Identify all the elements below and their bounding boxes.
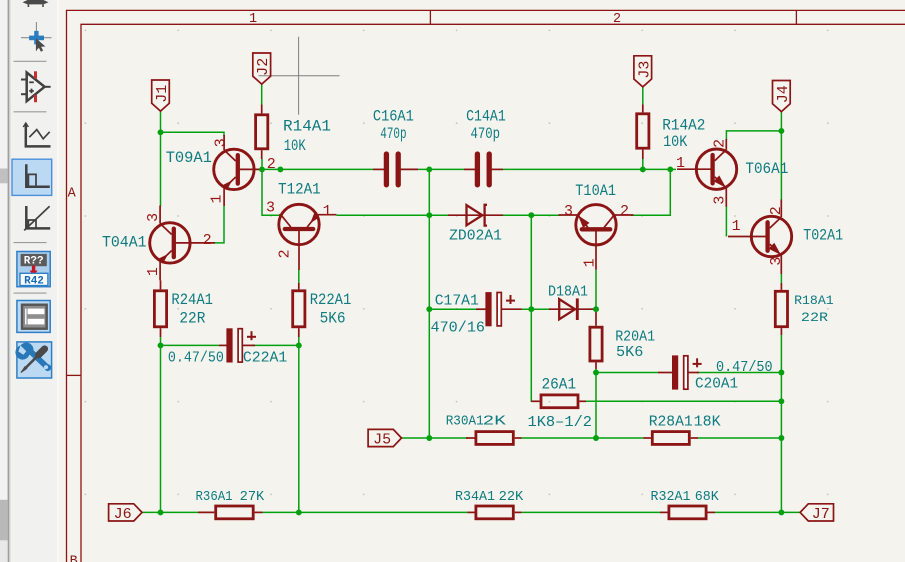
wire R24A1 junction to C22A1 xyxy=(161,344,220,346)
toolbar icon: sim settings (wrench and screwdriver) xyxy=(15,342,51,378)
wire D18A1 to node E xyxy=(587,308,596,310)
svg-text:T10A1: T10A1 xyxy=(575,182,616,200)
wire R14A2 to rail xyxy=(642,159,644,169)
svg-text:3: 3 xyxy=(712,196,729,205)
svg-text:T04A1: T04A1 xyxy=(102,234,147,252)
svg-text:1: 1 xyxy=(676,155,685,172)
svg-text:R20A1: R20A1 xyxy=(615,329,655,346)
toolbar icon: netlist/library xyxy=(17,301,50,333)
svg-text:3: 3 xyxy=(564,203,573,220)
wire T06A1 collector to J4 bus xyxy=(726,131,781,140)
svg-text:10K: 10K xyxy=(284,137,306,155)
svg-text:R36A1: R36A1 xyxy=(196,489,233,505)
junction (160.5,132.3) xyxy=(158,129,164,135)
junction (642.8,169.4) xyxy=(640,166,646,172)
svg-text:C22A1: C22A1 xyxy=(243,349,287,366)
svg-text:26A1: 26A1 xyxy=(542,376,577,394)
resistor R22A1 xyxy=(293,283,305,337)
wire rail: C16A1 to C14A1 xyxy=(418,168,464,170)
svg-text:2K: 2K xyxy=(483,413,507,429)
svg-text:J7: J7 xyxy=(812,506,830,523)
toolbar icon: partial icon at top (cut off) xyxy=(23,0,49,7)
svg-text:2: 2 xyxy=(768,206,785,215)
resistor R18A1 xyxy=(775,283,787,335)
connector J1 xyxy=(152,80,170,111)
resistor R14A1 xyxy=(256,105,268,160)
toolbar icon: annotate R??/R42 xyxy=(17,252,50,288)
svg-text:470p: 470p xyxy=(380,125,406,143)
wire vertical x=298.8 R22A1 to J6 rail xyxy=(298,337,300,512)
left strip scroll block upper xyxy=(0,169,8,184)
wire rail: T09A1 base to C16A1 xyxy=(262,168,373,170)
svg-text:0.47/50: 0.47/50 xyxy=(168,349,224,366)
junction (262,169.4) xyxy=(259,166,265,172)
capacitor C14A1 xyxy=(464,154,503,185)
svg-text:10K: 10K xyxy=(663,133,688,151)
svg-text:T09A1: T09A1 xyxy=(166,149,212,167)
svg-text:J5: J5 xyxy=(373,432,391,449)
toolbar icon: transient plot xyxy=(23,123,50,146)
junction (781.4,512.4) xyxy=(778,509,784,515)
wire T02A1 emitter to R18A1 xyxy=(780,274,782,283)
diode ZD02A1 xyxy=(448,205,503,226)
wire R14A1 to rail xyxy=(261,159,263,169)
svg-text:1: 1 xyxy=(249,12,257,27)
svg-text:C14A1: C14A1 xyxy=(466,108,506,126)
connector J3 xyxy=(634,56,652,87)
svg-text:22R: 22R xyxy=(179,310,205,328)
toolbar separator xyxy=(14,111,47,113)
resistor R28A1 xyxy=(644,432,699,445)
svg-text:J6: J6 xyxy=(114,506,132,523)
junction (781.4,372.5) xyxy=(778,370,784,376)
left strip scroll block lower xyxy=(0,500,8,541)
svg-text:R34A1: R34A1 xyxy=(455,489,495,505)
svg-text:22K: 22K xyxy=(499,489,524,505)
wire C17A1 to D18A1 xyxy=(509,308,550,310)
svg-text:2: 2 xyxy=(712,139,729,148)
wire C20A1 to right bus xyxy=(697,372,781,374)
connector J4 xyxy=(773,81,791,112)
svg-text:68K: 68K xyxy=(695,489,720,505)
diode D18A1 xyxy=(549,298,594,320)
cursor crosshair xyxy=(259,37,340,115)
svg-text:1: 1 xyxy=(145,267,162,276)
svg-text:2: 2 xyxy=(277,249,294,258)
wire junction down to T04A1 collector xyxy=(160,132,162,206)
svg-text:J3: J3 xyxy=(636,61,653,79)
resistor R32A1 xyxy=(660,506,715,519)
svg-text:2: 2 xyxy=(613,12,621,27)
svg-text:B: B xyxy=(70,555,78,562)
resistor R20A1 xyxy=(590,312,602,369)
toolbar separator xyxy=(14,242,47,244)
resistor R24A1 xyxy=(154,280,166,337)
toolbar separator xyxy=(14,292,47,294)
wire J5 to R30A1 xyxy=(402,437,469,439)
toolbar icon: cursor/probe xyxy=(21,22,52,52)
junction (280.4,169.4) xyxy=(277,166,283,172)
wire R18A1 down right bus to J6 rail xyxy=(780,335,782,512)
capacitor C16A1 xyxy=(373,154,418,185)
svg-text:1: 1 xyxy=(323,203,332,220)
svg-text:2: 2 xyxy=(203,232,212,249)
svg-text:2: 2 xyxy=(620,203,629,220)
wire T12A1 base to R22A1 xyxy=(298,269,300,284)
wire junction to T09A1 collector xyxy=(161,132,225,136)
wire node x=429 to C17A1 xyxy=(429,308,476,310)
junction (596,309.2) xyxy=(593,306,599,312)
wrench xyxy=(15,343,51,372)
svg-text:R14A2: R14A2 xyxy=(662,116,705,134)
transistor T04A1 xyxy=(150,206,215,281)
wire T10A1 base down to node E xyxy=(595,270,597,309)
svg-text:R18A1: R18A1 xyxy=(794,293,834,308)
svg-text:J1: J1 xyxy=(154,85,171,103)
connector J2 xyxy=(253,53,271,84)
resistor R34A1 xyxy=(468,506,522,519)
svg-text:2: 2 xyxy=(267,156,276,173)
svg-text:3: 3 xyxy=(266,200,275,217)
svg-text:R28A1: R28A1 xyxy=(649,414,693,431)
junction (429.3,169.4) xyxy=(426,166,432,172)
svg-text:22R: 22R xyxy=(801,310,828,325)
junction (596,372.5) xyxy=(593,370,599,376)
svg-text:C17A1: C17A1 xyxy=(435,292,479,309)
wire 26A1 to right bus xyxy=(586,400,781,402)
wire vertical x=596 down to J5 rail xyxy=(595,373,597,439)
wire R30A1 to R28A1 xyxy=(522,437,644,439)
svg-text:R42: R42 xyxy=(24,276,44,288)
polarized capacitor C20A1 xyxy=(658,355,702,389)
junction (160.5,512.4) xyxy=(158,509,164,515)
junction (596,438) xyxy=(593,435,599,441)
wire vertical node x=429 xyxy=(428,169,430,438)
svg-text:C16A1: C16A1 xyxy=(373,108,414,126)
junction (781.4,401.3) xyxy=(778,398,784,404)
svg-text:ZD02A1: ZD02A1 xyxy=(449,227,502,244)
svg-text:1: 1 xyxy=(732,218,741,235)
transistor T10A1 xyxy=(559,205,634,270)
wire C22A1 to R22A1 junction xyxy=(252,344,299,346)
wire J4 down right bus to T02A1 collector xyxy=(780,111,782,199)
resistor 26A1 xyxy=(531,395,586,408)
svg-text:1: 1 xyxy=(581,258,598,267)
wire junction to C20A1 xyxy=(596,372,658,374)
connector J5 xyxy=(368,429,401,446)
junction (781.4,438) xyxy=(778,435,784,441)
svg-text:R30A1: R30A1 xyxy=(446,413,484,429)
svg-text:T02A1: T02A1 xyxy=(803,227,843,245)
polarized capacitor C17A1 xyxy=(476,292,522,326)
svg-text:5K6: 5K6 xyxy=(320,310,346,328)
toolbar icon: dc sweep xyxy=(24,206,50,230)
svg-text:470p: 470p xyxy=(471,125,501,143)
junction (429.3,438) xyxy=(426,435,432,441)
svg-text:3: 3 xyxy=(145,213,162,222)
transistor T02A1 xyxy=(728,200,792,275)
junction (298.8,345.4) xyxy=(296,342,302,348)
transistor T06A1 xyxy=(677,139,737,207)
junction (429.3,309.2) xyxy=(426,306,432,312)
wire R32A1 to J7 xyxy=(715,511,800,513)
svg-text:C20A1: C20A1 xyxy=(695,376,738,393)
junction (531.3,215.2) xyxy=(528,212,534,218)
svg-text:R22A1: R22A1 xyxy=(310,291,352,309)
junction (670.3,169.4) xyxy=(667,166,673,172)
wire T09A1 emitter to T04A1 base xyxy=(215,206,225,243)
left panel strip xyxy=(0,0,11,562)
connector J6 xyxy=(109,504,142,521)
svg-text:T06A1: T06A1 xyxy=(745,160,788,178)
wire T10A1 collector up to rail xyxy=(631,169,670,215)
transistor T09A1 xyxy=(214,135,262,206)
svg-text:3: 3 xyxy=(768,257,785,266)
junction (531.3,309.2) xyxy=(528,306,534,312)
wire T09A1 base drop to T12A1 pin 3 xyxy=(262,169,280,215)
svg-text:18K: 18K xyxy=(694,414,721,431)
svg-text:1K8–1/2: 1K8–1/2 xyxy=(528,414,593,431)
svg-text:0.47/50: 0.47/50 xyxy=(716,359,773,376)
wire J6 to R36A1 xyxy=(142,511,198,513)
svg-text:3: 3 xyxy=(213,138,230,147)
junction (298.8,512.4) xyxy=(296,509,302,515)
toolbar separator xyxy=(14,60,47,62)
wire T12A1 emitter to zener ZD02A1 xyxy=(336,214,449,216)
wire J3 to R14A2 xyxy=(642,87,644,106)
toolbar icon: op-amp / simulate xyxy=(21,73,51,102)
junction (160.5,345.4) xyxy=(158,342,164,348)
svg-text:27K: 27K xyxy=(240,489,265,505)
wire R36A1 to R34A1 xyxy=(263,511,468,513)
connector J7 xyxy=(800,504,833,521)
wire R28A1 to right bus xyxy=(698,437,781,439)
junction (781.4,130.9) xyxy=(778,128,784,134)
screwdriver xyxy=(21,349,45,373)
toolbar icon highlight: step response (selected) xyxy=(12,159,52,195)
polarized capacitor C22A1 xyxy=(219,328,256,362)
wire J2 to R14A1 xyxy=(261,84,263,106)
resistor R14A2 xyxy=(637,105,649,160)
wire R34A1 to R32A1 xyxy=(522,511,661,513)
wire R20A1 bottom junction xyxy=(595,369,597,373)
svg-text:R14A1: R14A1 xyxy=(283,118,331,136)
wire J1 to junction xyxy=(160,111,162,133)
svg-text:J2: J2 xyxy=(255,58,272,76)
svg-text:R24A1: R24A1 xyxy=(171,291,213,309)
wire zener to T10A1 emitter xyxy=(502,214,561,216)
wire vertical x=160 R24A1 to J6 rail xyxy=(160,337,162,512)
svg-text:A: A xyxy=(68,187,77,202)
resistor R30A1 xyxy=(466,432,522,445)
svg-text:D18A1: D18A1 xyxy=(548,283,588,300)
junction (429.3,215.2) xyxy=(426,212,432,218)
svg-text:R32A1: R32A1 xyxy=(651,489,691,505)
svg-text:470/16: 470/16 xyxy=(431,320,486,337)
wire rail: C14A1 to T06A1 base xyxy=(503,168,676,170)
svg-text:T12A1: T12A1 xyxy=(278,181,321,199)
transistor T12A1 xyxy=(279,204,337,270)
svg-text:1: 1 xyxy=(209,194,226,203)
wire T06A1 emitter to T02A1 base xyxy=(725,206,727,237)
wire vertical node x=531 down to 26A1 xyxy=(531,215,537,401)
op-amp icon red marker xyxy=(34,71,37,102)
svg-text:5K6: 5K6 xyxy=(616,344,643,361)
svg-text:J4: J4 xyxy=(775,85,792,103)
resistor R36A1 xyxy=(198,506,263,519)
toolbar background xyxy=(11,0,58,562)
